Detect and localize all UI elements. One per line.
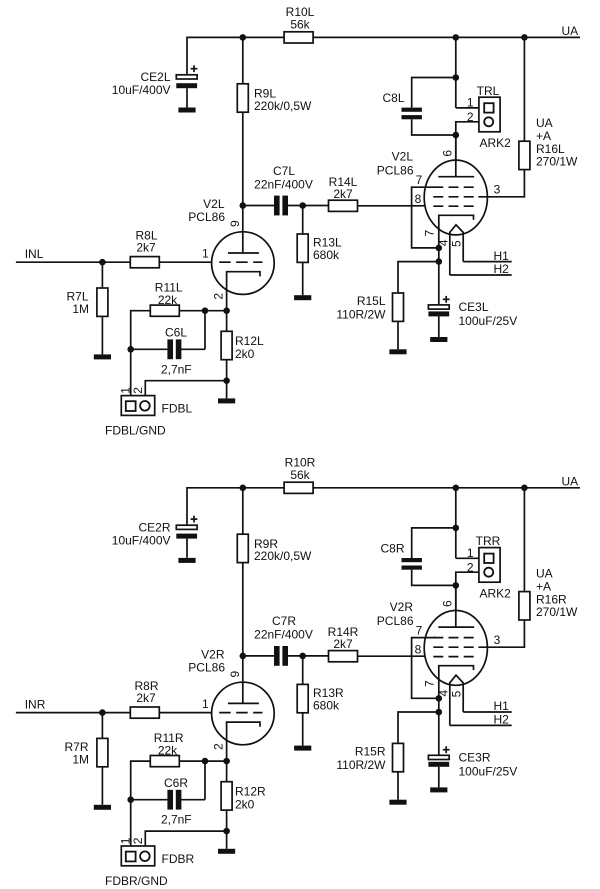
svg-text:100uF/25V: 100uF/25V	[459, 764, 518, 778]
svg-text:1: 1	[467, 546, 474, 560]
wire	[101, 262, 103, 288]
svg-text:CE2R: CE2R	[138, 520, 170, 534]
connector TRL ARK2	[467, 84, 511, 150]
svg-text:CE2L: CE2L	[140, 70, 170, 84]
resistor R7L 1M	[66, 288, 107, 316]
resistor R16L 270/1W	[519, 116, 578, 170]
node input/R7	[99, 259, 106, 266]
ground	[389, 349, 406, 354]
resistor R15L 110R/2W	[336, 293, 403, 322]
wire	[358, 655, 435, 657]
svg-text:8: 8	[415, 643, 422, 657]
resistor R9R 220k/0,5W	[237, 534, 312, 563]
svg-text:V2R: V2R	[390, 600, 414, 614]
resistor R10R 56k	[284, 455, 316, 493]
wire	[179, 760, 226, 762]
wire	[302, 656, 304, 685]
node C6/FDB pin1	[127, 346, 134, 353]
svg-text:6: 6	[441, 150, 455, 157]
ground	[430, 337, 447, 342]
svg-text:R15L: R15L	[357, 294, 386, 308]
wire	[412, 570, 456, 586]
svg-text:1: 1	[202, 247, 209, 261]
resistor R7R 1M	[64, 738, 107, 766]
svg-text:R15R: R15R	[355, 744, 386, 758]
node C8 bottom tap	[453, 582, 460, 589]
wire	[456, 557, 484, 559]
svg-text:C8L: C8L	[382, 91, 404, 105]
capacitor CE3R 100uF/25V	[428, 746, 517, 778]
wire	[398, 712, 439, 743]
resistor R11L 22k	[150, 281, 183, 317]
wire	[455, 37, 457, 108]
svg-text:22k: 22k	[158, 293, 178, 307]
svg-text:22nF/400V: 22nF/400V	[254, 628, 313, 642]
svg-text:H2: H2	[494, 713, 510, 727]
svg-text:H1: H1	[494, 249, 510, 263]
wire	[302, 262, 304, 295]
node R11/C6	[202, 307, 209, 314]
svg-text:56k: 56k	[290, 468, 310, 482]
svg-text:7: 7	[422, 680, 436, 687]
svg-text:+A: +A	[536, 579, 551, 593]
wire	[186, 539, 188, 558]
node C8 top tap	[453, 74, 460, 81]
wire	[181, 799, 205, 801]
svg-text:22k: 22k	[158, 743, 178, 757]
svg-text:C8R: C8R	[380, 541, 404, 555]
wire	[145, 831, 226, 851]
wire H1	[463, 261, 512, 263]
svg-text:220k/0,5W: 220k/0,5W	[254, 99, 312, 113]
svg-text:2k7: 2k7	[333, 187, 353, 201]
svg-text:TRL: TRL	[477, 84, 500, 98]
svg-text:FDBR/GND: FDBR/GND	[105, 874, 168, 888]
svg-text:6: 6	[441, 600, 455, 607]
capacitor CE3L 100uF/25V	[428, 296, 517, 328]
wire	[438, 767, 440, 788]
resistor R14L 2k7	[329, 175, 358, 212]
svg-text:2: 2	[131, 387, 145, 394]
svg-text:INR: INR	[25, 697, 46, 711]
wire	[226, 810, 228, 849]
wire	[242, 563, 244, 656]
connector FDBR ARK2	[105, 837, 195, 888]
node R12/FDB pin2	[223, 828, 230, 835]
node C7/R13/R14 node	[299, 202, 306, 209]
ground	[178, 558, 195, 563]
svg-text:680k: 680k	[313, 698, 340, 712]
node C6/FDB pin1	[127, 796, 134, 803]
resistor R14R 2k7	[328, 625, 359, 662]
svg-text:FDBL/GND: FDBL/GND	[105, 424, 166, 438]
capacitor C6L 2,7nF	[161, 326, 192, 377]
ground	[430, 787, 447, 792]
svg-text:V2L: V2L	[392, 150, 414, 164]
svg-text:ARK2: ARK2	[480, 136, 512, 150]
svg-text:56k: 56k	[290, 18, 310, 32]
svg-text:R12L: R12L	[235, 334, 264, 348]
wire	[438, 698, 440, 755]
svg-text:2: 2	[212, 743, 226, 750]
wire	[412, 119, 456, 135]
svg-text:7: 7	[416, 173, 423, 187]
svg-text:UA: UA	[536, 116, 553, 130]
svg-text:ARK2: ARK2	[480, 586, 512, 600]
ground	[218, 398, 235, 403]
svg-text:110R/2W: 110R/2W	[336, 758, 386, 772]
wire	[186, 88, 188, 107]
svg-text:110R/2W: 110R/2W	[336, 308, 386, 322]
svg-text:1: 1	[467, 96, 474, 110]
svg-text:H1: H1	[494, 699, 510, 713]
wire	[131, 799, 168, 801]
capacitor C8L	[382, 91, 421, 119]
svg-text:PCL86: PCL86	[188, 660, 225, 674]
wire	[242, 488, 244, 535]
wire	[204, 761, 206, 800]
wire UA rail	[187, 488, 580, 525]
wire	[181, 348, 205, 350]
node C8 bottom tap	[453, 132, 460, 139]
svg-text:3: 3	[494, 633, 501, 647]
wire	[358, 205, 435, 207]
svg-text:R12R: R12R	[235, 784, 266, 798]
svg-text:UA: UA	[562, 474, 579, 488]
node R12/FDB pin2	[223, 377, 230, 384]
svg-text:22nF/400V: 22nF/400V	[254, 177, 313, 191]
svg-text:9: 9	[228, 670, 242, 677]
wire	[456, 572, 484, 627]
wire	[302, 713, 304, 746]
svg-text:1: 1	[202, 697, 209, 711]
wire	[397, 772, 399, 800]
capacitor C6R 2,7nF	[161, 776, 192, 827]
op-amp V2L pentode PCL86	[377, 135, 501, 275]
wire	[523, 37, 525, 141]
svg-text:7: 7	[422, 230, 436, 237]
svg-text:9: 9	[228, 220, 242, 227]
wire	[398, 262, 439, 293]
resistor R12L 2k0	[221, 331, 264, 361]
svg-text:2,7nF: 2,7nF	[161, 362, 192, 376]
svg-text:5: 5	[449, 240, 463, 247]
wire	[288, 205, 329, 207]
svg-text:2: 2	[212, 293, 226, 300]
wire	[478, 170, 524, 197]
wire	[523, 488, 525, 592]
wire	[101, 316, 103, 354]
svg-text:C6L: C6L	[165, 326, 187, 340]
node cathode/R12	[223, 758, 230, 765]
wire	[226, 761, 228, 782]
node rail/R9	[240, 485, 247, 492]
wire	[243, 655, 274, 657]
resistor R9L 220k/0,5W	[237, 84, 312, 113]
ground	[294, 295, 311, 300]
svg-text:2,7nF: 2,7nF	[161, 813, 192, 827]
svg-text:1M: 1M	[72, 752, 89, 766]
wire	[179, 310, 226, 312]
op-amp V2R triode PCL86	[188, 647, 274, 761]
ground	[294, 746, 311, 751]
resistor R16R 270/1W	[519, 566, 578, 620]
svg-text:2: 2	[131, 837, 145, 844]
capacitor C7R 22nF/400V	[254, 614, 313, 666]
wire	[412, 78, 456, 108]
wire	[455, 488, 457, 559]
svg-text:PCL86: PCL86	[377, 614, 414, 628]
wire	[412, 528, 456, 558]
svg-text:H2: H2	[494, 262, 510, 276]
resistor R8L 2k7	[130, 229, 159, 268]
svg-text:2k7: 2k7	[333, 637, 353, 651]
wire	[101, 767, 103, 805]
svg-text:V2L: V2L	[203, 197, 225, 211]
svg-text:7: 7	[416, 623, 423, 637]
right channel	[16, 455, 580, 888]
wire	[159, 712, 211, 714]
svg-text:2k0: 2k0	[235, 797, 255, 811]
wire	[159, 261, 211, 263]
left channel	[16, 5, 580, 438]
node R11/C6	[202, 758, 209, 765]
node pentode k/g3	[436, 245, 443, 252]
wire	[131, 761, 151, 852]
svg-text:C6R: C6R	[164, 776, 188, 790]
wire	[456, 107, 484, 109]
svg-text:UA: UA	[562, 24, 579, 38]
svg-text:TRR: TRR	[476, 534, 501, 548]
wire	[288, 655, 329, 657]
node k/R15/CE3	[436, 709, 443, 716]
resistor R12R 2k0	[221, 782, 266, 812]
wire	[131, 348, 168, 350]
svg-text:C7R: C7R	[272, 614, 296, 628]
wire	[397, 321, 399, 349]
svg-text:270/1W: 270/1W	[536, 605, 578, 619]
svg-text:V2R: V2R	[201, 647, 225, 661]
resistor R8R 2k7	[130, 679, 159, 718]
resistor R13L 680k	[297, 234, 342, 262]
wire UA rail	[187, 37, 580, 74]
connector FDBL ARK2	[105, 387, 193, 438]
svg-text:10uF/400V: 10uF/400V	[112, 533, 171, 547]
capacitor CE2R	[112, 516, 198, 548]
svg-text:FDBL: FDBL	[162, 402, 193, 416]
node k/R15/CE3	[436, 258, 443, 265]
svg-text:220k/0,5W: 220k/0,5W	[254, 549, 312, 563]
svg-text:PCL86: PCL86	[377, 164, 414, 178]
wire	[438, 248, 440, 305]
svg-text:INL: INL	[25, 247, 44, 261]
svg-text:2: 2	[467, 110, 474, 124]
wire	[226, 360, 228, 399]
svg-text:2k0: 2k0	[235, 347, 255, 361]
connector TRR ARK2	[467, 534, 511, 600]
svg-text:CE3L: CE3L	[459, 300, 489, 314]
wire	[131, 311, 151, 402]
ground	[389, 800, 406, 805]
op-amp V2L triode PCL86	[188, 197, 274, 311]
wire	[226, 311, 228, 332]
svg-text:100uF/25V: 100uF/25V	[459, 314, 518, 328]
svg-text:UA: UA	[536, 566, 553, 580]
node rail/TR	[453, 485, 460, 492]
node cathode/R12	[223, 307, 230, 314]
resistor R10L 56k	[284, 5, 315, 43]
node rail/TR	[453, 34, 460, 41]
wire	[145, 381, 226, 401]
svg-text:1M: 1M	[72, 302, 89, 316]
node triode anode node	[240, 653, 247, 660]
node rail/R16	[521, 34, 528, 41]
wire	[101, 713, 103, 739]
ground	[178, 108, 195, 113]
svg-text:PCL86: PCL86	[188, 210, 225, 224]
svg-text:680k: 680k	[313, 248, 340, 262]
node rail/R9	[240, 34, 247, 41]
wire	[302, 206, 304, 235]
op-amp V2R pentode PCL86	[377, 585, 501, 725]
svg-text:FDBR: FDBR	[162, 852, 195, 866]
node rail/R16	[521, 485, 528, 492]
svg-text:8: 8	[415, 192, 422, 206]
svg-text:270/1W: 270/1W	[536, 155, 578, 169]
svg-text:2k7: 2k7	[136, 241, 156, 255]
svg-text:2k7: 2k7	[136, 691, 156, 705]
resistor R11R 22k	[150, 731, 184, 767]
node triode anode node	[240, 202, 247, 209]
node C8 top tap	[453, 525, 460, 532]
wire H2	[450, 274, 512, 276]
wire	[478, 620, 524, 647]
wire	[438, 316, 440, 337]
svg-text:10uF/400V: 10uF/400V	[112, 83, 171, 97]
wire H1	[463, 711, 512, 713]
resistor R13R 680k	[297, 684, 344, 712]
node pentode k/g3	[436, 695, 443, 702]
svg-text:C7L: C7L	[273, 164, 295, 178]
svg-text:+A: +A	[536, 129, 551, 143]
ground	[94, 805, 111, 810]
wire INL input	[16, 261, 131, 263]
wire INR input	[16, 712, 131, 714]
capacitor C7L 22nF/400V	[254, 164, 313, 216]
svg-text:5: 5	[449, 690, 463, 697]
resistor R15R 110R/2W	[336, 743, 403, 772]
svg-text:2: 2	[467, 560, 474, 574]
wire	[456, 122, 484, 177]
node C7/R13/R14 node	[299, 653, 306, 660]
ground	[94, 354, 111, 359]
ground	[218, 849, 235, 854]
wire	[242, 112, 244, 205]
capacitor C8R	[380, 541, 421, 569]
node input/R7	[99, 709, 106, 716]
wire	[204, 311, 206, 350]
svg-text:3: 3	[494, 183, 501, 197]
wire	[243, 205, 274, 207]
capacitor CE2L	[112, 65, 198, 97]
wire	[242, 37, 244, 84]
svg-text:CE3R: CE3R	[459, 750, 491, 764]
wire H2	[450, 724, 512, 726]
